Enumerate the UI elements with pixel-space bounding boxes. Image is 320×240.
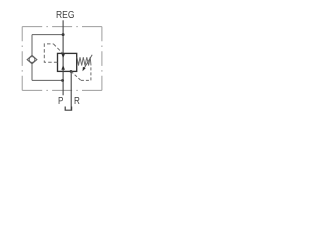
adjustment arrow shaft — [83, 55, 92, 70]
check valve V1 ball — [29, 57, 35, 63]
flow path line inside valve — [62, 53, 64, 71]
enclosure dash-dot box bottom edge — [22, 89, 102, 91]
wire R port line — [70, 71, 72, 110]
pilot diagonal dashed — [53, 44, 62, 53]
pressure regulator valve body — [58, 53, 77, 71]
enclosure dash-dot box right edge — [101, 27, 103, 91]
drain dashed diagonal — [71, 71, 81, 80]
node junction top — [62, 33, 65, 36]
wire P port line — [62, 71, 64, 95]
wire check vertical line — [31, 35, 33, 81]
node junction bottom — [61, 79, 64, 82]
arrowhead up at bottom — [61, 65, 65, 70]
wire check top branch — [32, 34, 63, 36]
wire REG port line — [62, 20, 64, 53]
label P — [58, 97, 63, 107]
enclosure dash-dot box left edge — [21, 27, 23, 91]
spring — [77, 57, 91, 65]
adjustment arrowhead — [83, 67, 86, 72]
check valve V1 diamond — [27, 55, 37, 64]
drain dashed horizontal — [81, 79, 91, 81]
drain dashed vertical — [90, 66, 92, 81]
node drain junction on valve bottom — [70, 70, 73, 73]
arrowhead down at top — [61, 54, 65, 59]
wire check bottom branch — [32, 79, 63, 81]
pilot line dashed — [44, 44, 57, 62]
enclosure dash-dot box top edge — [22, 26, 102, 28]
tank symbol — [65, 107, 71, 111]
label REG — [56, 11, 74, 21]
label R — [74, 97, 80, 107]
